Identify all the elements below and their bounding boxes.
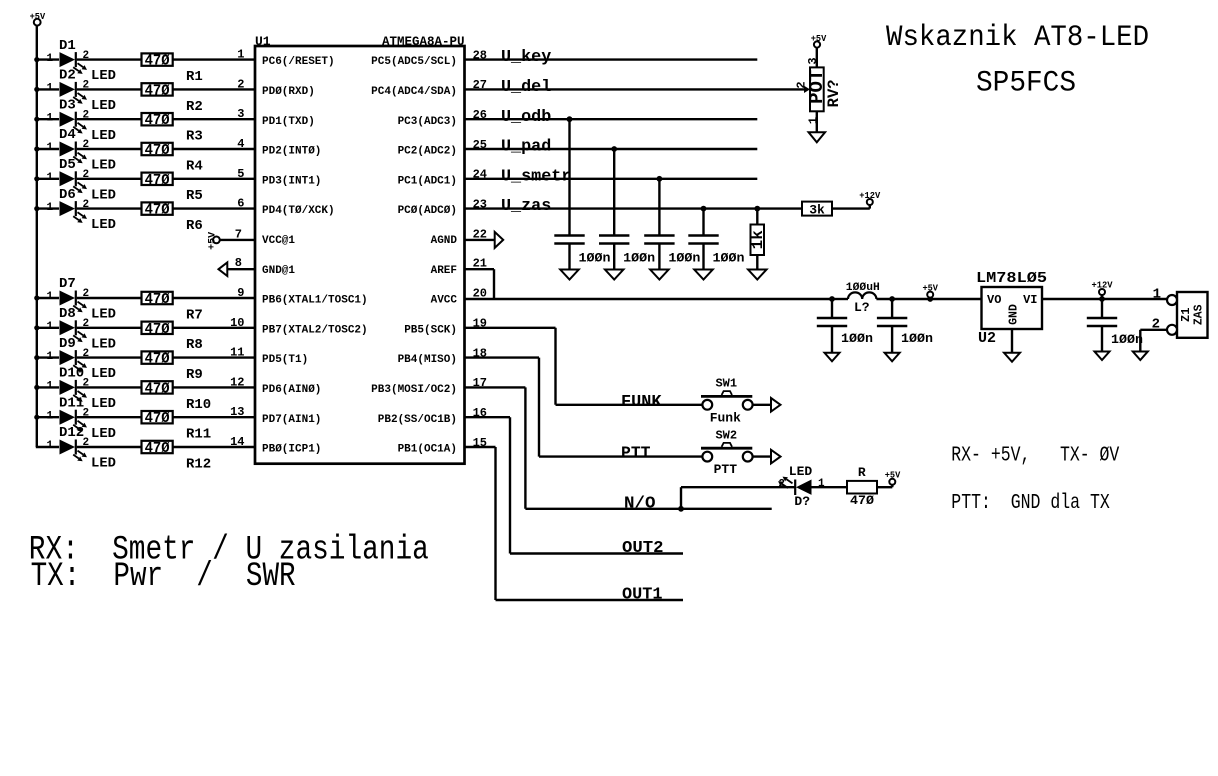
svg-text:OUT1: OUT1 [622, 585, 663, 604]
svg-text:1: 1 [47, 440, 54, 452]
svg-text:17: 17 [473, 376, 487, 390]
svg-text:ZAS: ZAS [1193, 304, 1206, 325]
svg-text:R8: R8 [186, 337, 203, 353]
svg-text:1: 1 [47, 202, 54, 214]
wire bus to D3 and junction [34, 117, 59, 122]
svg-text:+12V: +12V [859, 191, 881, 201]
junction N/O [678, 506, 684, 512]
svg-text:+5V: +5V [30, 12, 46, 22]
svg-text:1ØØn: 1ØØn [579, 251, 611, 266]
ground [650, 270, 669, 280]
subtitle text [976, 67, 1076, 101]
resistor R1 470 [142, 53, 203, 85]
svg-text:D3: D3 [59, 97, 76, 113]
wire R1 to U1 pin 1 [173, 48, 255, 62]
svg-text:1: 1 [47, 381, 54, 393]
wire bus to D5 and junction [34, 176, 59, 181]
svg-text:2: 2 [778, 478, 785, 490]
svg-text:LED: LED [91, 217, 116, 233]
wire POT pin 3 [806, 48, 820, 68]
capacitor C4 100n [688, 236, 744, 266]
ground [885, 353, 900, 362]
svg-text:14: 14 [230, 435, 244, 449]
svg-text:47Ø: 47Ø [145, 203, 170, 219]
capacitor C7 100n [1087, 299, 1143, 352]
svg-text:SW1: SW1 [715, 377, 737, 391]
svg-text:PC6(/RESET): PC6(/RESET) [262, 56, 335, 68]
POT wiper arrow (pin 2) [794, 81, 810, 93]
wire U2 VI to Z1 pin 1 [1042, 298, 1167, 300]
LED D10 [47, 366, 117, 412]
svg-text:16: 16 [473, 406, 487, 420]
svg-text:PD5(T1): PD5(T1) [262, 354, 308, 366]
svg-text:D1: D1 [59, 38, 76, 54]
svg-text:1: 1 [47, 172, 54, 184]
svg-text:LED: LED [91, 98, 116, 114]
wire junction up to LED D? [681, 487, 795, 509]
svg-text:1: 1 [47, 83, 54, 95]
junction on net [657, 176, 663, 182]
LED D11 [47, 395, 117, 441]
svg-text:1: 1 [47, 291, 54, 303]
power +12V input [1092, 281, 1114, 302]
svg-text:+5V: +5V [207, 232, 218, 250]
svg-text:PD2(INTØ): PD2(INTØ) [262, 146, 321, 158]
svg-text:VI: VI [1023, 293, 1037, 307]
LED D2 [47, 68, 117, 114]
wire AREF (pin 21) [465, 257, 495, 299]
ground GND@1 (pin 8) [219, 256, 256, 276]
resistor R7 470 [142, 292, 203, 324]
wire U1 pin 18 [465, 346, 540, 456]
svg-text:21: 21 [473, 257, 487, 271]
node OUT2 [510, 539, 683, 558]
svg-text:SW2: SW2 [715, 428, 737, 442]
wire capacitor C4 to ground [702, 245, 704, 270]
svg-text:D11: D11 [59, 395, 84, 411]
svg-text:U_odb: U_odb [501, 108, 551, 127]
ground [825, 353, 840, 362]
svg-text:U_del: U_del [501, 78, 551, 97]
wire bus to D2 and junction [34, 87, 59, 92]
svg-text:U_smetr: U_smetr [501, 167, 571, 186]
svg-text:R7: R7 [186, 307, 203, 323]
wire D6 to R6 [77, 207, 142, 209]
svg-text:D4: D4 [59, 127, 76, 143]
wire D9 to R9 [77, 356, 142, 358]
junction AVCC / C5 [829, 296, 835, 302]
note RX meaning [29, 532, 429, 570]
wire +5V bus [36, 26, 38, 447]
wire U1 pin 15 [465, 436, 496, 600]
IC U1 ATMEGA8A-PU [255, 34, 465, 464]
node U_pad (pin 25) [465, 138, 758, 157]
svg-text:R5: R5 [186, 188, 203, 204]
LED D4 [47, 127, 117, 173]
svg-text:Wskaznik AT8-LED: Wskaznik AT8-LED [886, 21, 1149, 55]
LED D9 [47, 336, 117, 382]
svg-text:1ØØn: 1ØØn [713, 251, 745, 266]
LED D? [778, 464, 825, 509]
switch SW2 PTT [701, 428, 753, 477]
svg-text:PB5(SCK): PB5(SCK) [404, 324, 457, 336]
wire to capacitor C1 [568, 119, 570, 234]
svg-text:R10: R10 [186, 397, 211, 413]
svg-text:PC2(ADC2): PC2(ADC2) [398, 146, 457, 158]
svg-text:3k: 3k [809, 202, 825, 217]
svg-text:AGND: AGND [431, 235, 458, 247]
resistor R3 470 [142, 113, 203, 145]
regulator U2 LM78L05 [976, 270, 1047, 347]
wire bus to D7 and junction [34, 295, 59, 300]
note TX meaning [31, 558, 296, 596]
wire R12 to U1 pin 14 [173, 435, 255, 449]
wire Z1 pin 2 to ground [1140, 330, 1167, 352]
wire capacitor C3 to ground [658, 245, 660, 270]
svg-text:D2: D2 [59, 68, 76, 84]
ground [1004, 353, 1020, 362]
svg-text:R9: R9 [186, 367, 203, 383]
wire U1 pin 17 [465, 376, 526, 509]
svg-text:D?: D? [794, 494, 810, 509]
svg-text:D8: D8 [59, 306, 76, 322]
svg-text:PC5(ADC5/SCL): PC5(ADC5/SCL) [371, 56, 457, 68]
svg-text:PTT: PTT [621, 444, 651, 463]
svg-text:LED: LED [91, 396, 116, 412]
svg-text:LED: LED [789, 464, 813, 479]
svg-text:PC1(ADC1): PC1(ADC1) [398, 175, 457, 187]
svg-text:LED: LED [91, 128, 116, 144]
svg-text:D10: D10 [59, 366, 84, 382]
svg-text:R12: R12 [186, 456, 211, 472]
svg-text:1: 1 [47, 321, 54, 333]
svg-text:47Ø: 47Ø [145, 143, 170, 159]
svg-text:+5V: +5V [811, 34, 827, 44]
ground [605, 270, 624, 280]
svg-text:LED: LED [91, 366, 116, 382]
svg-text:LED: LED [91, 187, 116, 203]
junction U_zas / 1k [754, 206, 760, 212]
ground [1133, 352, 1148, 361]
svg-text:VCC@1: VCC@1 [262, 235, 295, 247]
resistor R4 470 [142, 143, 203, 175]
svg-text:LED: LED [91, 336, 116, 352]
capacitor C5 100n [817, 299, 873, 353]
svg-text:LED: LED [91, 68, 116, 84]
wire VCC@1 [220, 227, 255, 241]
svg-text:22: 22 [473, 227, 487, 241]
svg-text:R4: R4 [186, 158, 203, 174]
LED D12 [47, 425, 117, 471]
wire D3 to R3 [77, 118, 142, 120]
ground AGND (pin 22) [465, 227, 504, 248]
wire capacitor C1 to ground [568, 245, 570, 270]
capacitor C6 100n [877, 299, 933, 353]
wire D1 to R1 [77, 58, 142, 60]
svg-text:PC3(ADC3): PC3(ADC3) [398, 116, 457, 128]
svg-text:20: 20 [473, 287, 487, 301]
svg-text:PB6(XTAL1/TOSC1): PB6(XTAL1/TOSC1) [262, 295, 368, 307]
svg-text:1: 1 [47, 142, 54, 154]
svg-text:U_pad: U_pad [501, 138, 551, 157]
power +5V [885, 471, 901, 485]
wire R11 to U1 pin 13 [173, 405, 255, 419]
wire D11 to R11 [77, 416, 142, 418]
svg-text:11: 11 [230, 346, 244, 360]
svg-text:1ØØn: 1ØØn [841, 331, 873, 346]
wire bus to D9 and junction [34, 355, 59, 360]
svg-text:1: 1 [237, 48, 244, 62]
wire to capacitor C2 [613, 149, 615, 235]
junction on net [611, 146, 617, 152]
svg-text:Z1: Z1 [1179, 308, 1193, 322]
svg-text:U2: U2 [978, 330, 996, 347]
svg-text:U_key: U_key [501, 48, 551, 67]
svg-text:AVCC: AVCC [431, 295, 458, 307]
LED D5 [47, 157, 117, 203]
LED D6 [47, 187, 117, 233]
svg-text:47Ø: 47Ø [145, 113, 170, 129]
wire D4 to R4 [77, 148, 142, 150]
wire D2 to R2 [77, 88, 142, 90]
svg-text:PB7(XTAL2/TOSC2): PB7(XTAL2/TOSC2) [262, 324, 368, 336]
svg-text:+5V: +5V [922, 283, 938, 293]
node U_zas (pin 23) [465, 197, 803, 216]
svg-text:+12V: +12V [1092, 281, 1114, 291]
wire D5 to R5 [77, 178, 142, 180]
wire U2 GND to ground [1011, 329, 1013, 353]
svg-text:LED: LED [91, 456, 116, 472]
resistor R10 470 [142, 381, 212, 413]
svg-text:D9: D9 [59, 336, 76, 352]
resistor R5 470 [142, 173, 203, 205]
wire [832, 298, 848, 300]
wire R 1k to ground [756, 255, 758, 270]
output port arrow [771, 450, 781, 464]
svg-text:47Ø: 47Ø [145, 441, 170, 457]
resistor 3k [802, 202, 832, 218]
wire bus to D11 and junction [34, 415, 59, 420]
inductor L? 100uH [846, 282, 880, 315]
svg-text:R1: R1 [186, 69, 203, 85]
resistor 1k [749, 225, 767, 256]
svg-text:PBØ(ICP1): PBØ(ICP1) [262, 444, 321, 456]
wire 3k to +12V [832, 205, 870, 209]
ground [560, 270, 579, 280]
svg-text:1: 1 [47, 410, 54, 422]
svg-text:15: 15 [473, 436, 487, 450]
power +5V (top-left) [30, 12, 46, 26]
node OUT1 [496, 585, 684, 604]
switch SW1 Funk [701, 377, 753, 426]
wire R7 to U1 pin 9 [173, 286, 255, 300]
svg-text:5: 5 [237, 167, 244, 181]
svg-text:24: 24 [473, 168, 487, 182]
svg-text:L?: L? [854, 300, 870, 315]
svg-text:VO: VO [987, 293, 1001, 307]
svg-text:47Ø: 47Ø [145, 173, 170, 189]
junction on net [701, 206, 707, 212]
wire bus to D10 and junction [34, 385, 59, 390]
node FUNK [556, 393, 703, 412]
svg-text:GND@1: GND@1 [262, 265, 295, 277]
svg-text:13: 13 [230, 405, 244, 419]
svg-text:LED: LED [91, 158, 116, 174]
wire bus to D1 and junction [34, 57, 59, 62]
svg-text:1ØØn: 1ØØn [623, 251, 655, 266]
wire R4 to U1 pin 4 [173, 137, 255, 151]
svg-text:47Ø: 47Ø [145, 411, 170, 427]
svg-text:9: 9 [237, 286, 244, 300]
svg-text:D7: D7 [59, 276, 76, 292]
potentiometer RV? POT [806, 67, 843, 111]
svg-text:1: 1 [47, 351, 54, 363]
node N/O [525, 495, 771, 514]
wire POT pin 1 to ground [807, 111, 821, 132]
wire bus to D6 and junction [34, 206, 59, 211]
svg-text:Funk: Funk [710, 410, 741, 425]
svg-text:47Ø: 47Ø [850, 493, 874, 508]
node U_odb (pin 26) [465, 108, 758, 127]
svg-text:PB4(MISO): PB4(MISO) [398, 354, 457, 366]
svg-text:R: R [858, 465, 866, 480]
svg-text:2: 2 [794, 81, 808, 88]
svg-text:LED: LED [91, 426, 116, 442]
power +5V (VCC@1 pin 7) [207, 232, 219, 250]
wire bus to D4 and junction [34, 146, 59, 151]
note PTT [951, 492, 1110, 515]
svg-text:1: 1 [47, 53, 54, 65]
svg-text:47Ø: 47Ø [145, 83, 170, 99]
wire R5 to U1 pin 5 [173, 167, 255, 181]
svg-text:25: 25 [473, 138, 487, 152]
svg-text:GND: GND [1008, 304, 1021, 325]
svg-text:R3: R3 [186, 129, 203, 145]
capacitor C2 100n [599, 236, 655, 266]
wire bus to D8 and junction [34, 325, 59, 330]
resistor R11 470 [142, 411, 212, 443]
svg-text:47Ø: 47Ø [145, 292, 170, 308]
title text [886, 21, 1149, 55]
wire R6 to U1 pin 6 [173, 197, 255, 211]
svg-text:PCØ(ADCØ): PCØ(ADCØ) [398, 205, 457, 217]
svg-text:SP5FCS: SP5FCS [976, 67, 1076, 101]
svg-text:FUNK: FUNK [621, 393, 662, 412]
connector Z1 ZAS [1152, 286, 1208, 338]
svg-text:U_zas: U_zas [501, 197, 551, 216]
ground [1095, 352, 1110, 361]
wire R9 to U1 pin 11 [173, 346, 255, 360]
capacitor C1 100n [554, 236, 610, 266]
svg-text:1: 1 [1153, 286, 1161, 302]
svg-text:PDØ(RXD): PDØ(RXD) [262, 86, 315, 98]
svg-text:1ØØn: 1ØØn [901, 331, 933, 346]
svg-text:N/O: N/O [624, 495, 656, 514]
wire D7 to R7 [77, 297, 142, 299]
svg-text:3: 3 [806, 57, 820, 64]
node U_smetr (pin 24) [465, 167, 758, 186]
svg-text:8: 8 [235, 256, 242, 270]
resistor R6 470 [142, 202, 203, 234]
svg-text:3: 3 [237, 107, 244, 121]
svg-text:19: 19 [473, 317, 487, 331]
svg-text:47Ø: 47Ø [145, 322, 170, 338]
svg-text:D5: D5 [59, 157, 76, 173]
svg-text:AREF: AREF [431, 265, 457, 277]
svg-text:6: 6 [237, 197, 244, 211]
svg-text:1k: 1k [749, 230, 767, 250]
svg-text:D6: D6 [59, 187, 76, 203]
svg-text:23: 23 [473, 197, 487, 211]
svg-text:PB3(MOSI/OC2): PB3(MOSI/OC2) [371, 384, 457, 396]
wire to capacitor C3 [658, 179, 660, 235]
wire AVCC to U2 VO [930, 298, 981, 300]
node PTT [539, 444, 702, 463]
wire U_zas to R 1k [756, 209, 758, 225]
node U_del (pin 27) [465, 78, 805, 97]
svg-text:D12: D12 [59, 425, 84, 441]
wire R10 to U1 pin 12 [173, 375, 255, 389]
svg-text:1ØØn: 1ØØn [1111, 332, 1143, 347]
power +5V (POT) [811, 34, 827, 47]
svg-text:LED: LED [91, 307, 116, 323]
wire capacitor C2 to ground [613, 245, 615, 270]
wire R2 to U1 pin 2 [173, 77, 255, 91]
svg-text:LM78LØ5: LM78LØ5 [976, 270, 1047, 287]
resistor R 470 [847, 465, 877, 508]
svg-text:+5V: +5V [885, 471, 901, 481]
svg-text:1: 1 [47, 112, 54, 124]
svg-text:RX- +5V, TX- ØV: RX- +5V, TX- ØV [951, 445, 1119, 468]
wire R to +5V [877, 485, 892, 488]
wire to capacitor C4 [702, 209, 704, 235]
svg-text:27: 27 [473, 78, 487, 92]
svg-text:U1: U1 [255, 34, 271, 49]
svg-text:R11: R11 [186, 427, 211, 443]
output port arrow [771, 398, 781, 412]
LED D1 [47, 38, 117, 84]
ground [694, 270, 713, 280]
svg-text:PB2(SS/OC1B): PB2(SS/OC1B) [378, 414, 457, 426]
power +12V [859, 191, 881, 205]
svg-text:47Ø: 47Ø [145, 381, 170, 397]
svg-text:47Ø: 47Ø [145, 352, 170, 368]
wire SW2 to output arrow [753, 455, 772, 457]
svg-text:18: 18 [473, 346, 487, 360]
svg-text:PTT: PTT [714, 462, 738, 477]
node AVCC rail (pin 20) [465, 287, 833, 301]
svg-text:10: 10 [230, 316, 244, 330]
capacitor C3 100n [644, 236, 700, 266]
svg-text:ATMEGA8A-PU: ATMEGA8A-PU [382, 35, 465, 49]
svg-text:RV?: RV? [825, 79, 843, 107]
svg-text:PD6(AINØ): PD6(AINØ) [262, 384, 321, 396]
wire [876, 296, 930, 302]
wire U1 pin 16 [465, 406, 511, 554]
svg-text:PB1(OC1A): PB1(OC1A) [398, 444, 457, 456]
wire SW1 to output arrow [753, 404, 772, 406]
svg-text:TX: Pwr / SWR: TX: Pwr / SWR [31, 558, 296, 596]
svg-text:47Ø: 47Ø [145, 54, 170, 70]
svg-text:PTT: GND dla TX: PTT: GND dla TX [951, 492, 1110, 515]
ground [809, 132, 826, 142]
svg-text:PD1(TXD): PD1(TXD) [262, 116, 315, 128]
wire LED D? to resistor R [812, 486, 848, 488]
wire D8 to R8 [77, 327, 142, 329]
ground [748, 270, 767, 280]
svg-text:OUT2: OUT2 [622, 539, 664, 558]
resistor R12 470 [142, 441, 212, 473]
